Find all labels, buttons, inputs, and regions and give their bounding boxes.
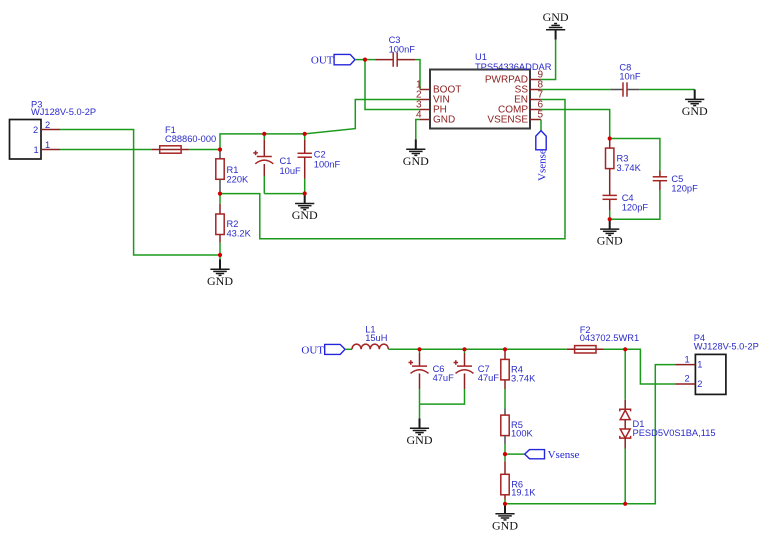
svg-text:OUT: OUT [301,344,324,356]
svg-text:1: 1 [697,360,702,370]
svg-text:GND: GND [543,10,569,24]
svg-text:1: 1 [45,140,50,150]
svg-text:100nF: 100nF [314,159,341,169]
svg-text:GND: GND [433,115,455,126]
svg-text:2: 2 [685,374,690,384]
svg-text:3.74K: 3.74K [511,373,536,383]
svg-text:Vsense: Vsense [537,149,549,181]
svg-text:120pF: 120pF [622,202,649,212]
svg-text:10uF: 10uF [280,166,302,176]
svg-text:R3: R3 [617,153,629,163]
svg-text:47uF: 47uF [433,373,455,383]
svg-text:PESD5V0S1BA,115: PESD5V0S1BA,115 [633,428,716,438]
svg-text:GND: GND [597,234,623,248]
svg-text:GND: GND [682,104,708,118]
svg-text:19.1K: 19.1K [511,488,536,498]
svg-text:2: 2 [697,379,702,389]
svg-text:120pF: 120pF [671,183,698,193]
svg-text:GND: GND [403,154,429,168]
svg-text:OUT: OUT [311,55,334,67]
svg-text:100nF: 100nF [389,44,416,54]
svg-text:GND: GND [407,433,433,447]
svg-text:43.2K: 43.2K [227,229,252,239]
svg-text:15uH: 15uH [365,333,387,343]
svg-text:3.74K: 3.74K [617,163,642,173]
svg-text:VSENSE: VSENSE [487,115,528,126]
svg-text:U1: U1 [475,52,487,62]
svg-text:GND: GND [207,274,233,288]
svg-text:C1: C1 [280,156,292,166]
svg-text:2: 2 [45,120,50,130]
svg-text:C88860-000: C88860-000 [165,134,216,144]
svg-text:10nF: 10nF [619,71,641,81]
svg-text:1: 1 [685,355,690,365]
svg-text:5: 5 [538,110,544,121]
svg-text:C4: C4 [622,193,634,203]
svg-text:043702.5WR1: 043702.5WR1 [580,333,639,343]
svg-text:2: 2 [33,125,38,135]
svg-text:C5: C5 [671,174,683,184]
svg-text:GND: GND [292,208,318,222]
svg-text:Vsense: Vsense [548,449,580,461]
svg-text:C2: C2 [314,150,326,160]
svg-text:WJ128V-5.0-2P: WJ128V-5.0-2P [31,107,96,117]
svg-text:WJ128V-5.0-2P: WJ128V-5.0-2P [694,342,759,352]
svg-text:100K: 100K [511,428,534,438]
svg-text:47uF: 47uF [478,373,500,383]
svg-text:220K: 220K [227,175,250,185]
svg-text:GND: GND [492,518,518,532]
svg-text:1: 1 [34,145,39,155]
